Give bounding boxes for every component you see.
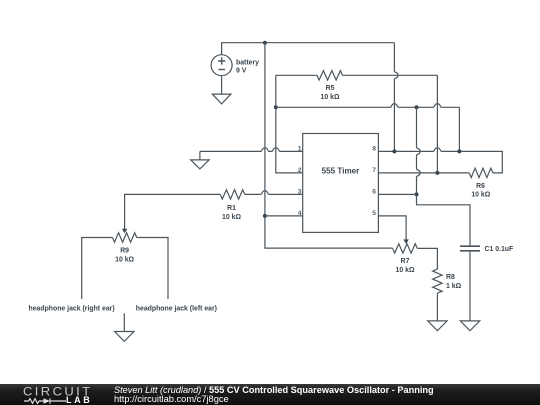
node C junction dot on y107 row [415, 105, 419, 109]
label R5 10 kOhm [321, 85, 340, 101]
svg-text:C1 0.1uF: C1 0.1uF [485, 246, 514, 253]
wire battery bottom [221, 76, 223, 94]
node A junction dot [263, 41, 267, 45]
svg-text:R5: R5 [326, 85, 335, 92]
svg-text:9 V: 9 V [236, 67, 247, 74]
svg-text:R8: R8 [446, 274, 455, 281]
svg-text:battery: battery [236, 59, 259, 66]
wire V5: R5 right end down to pin 7 [436, 75, 438, 173]
node pin8-V3 junction dot [392, 149, 396, 153]
node pin8-V6 junction dot [457, 149, 461, 153]
svg-text:7: 7 [372, 167, 376, 174]
footer bar [0, 384, 540, 405]
node pin7-V5 junction dot [435, 171, 439, 175]
ground (C1) [460, 321, 479, 331]
wire V4: node C down to C1, hops over pin8 and pin7 rows [417, 107, 471, 246]
resistor R5 [276, 71, 438, 80]
svg-text:5: 5 [372, 210, 376, 217]
svg-text:2: 2 [298, 167, 302, 174]
wire pin4 row [265, 215, 303, 217]
wire R8 bottom to ground [436, 293, 438, 321]
label C1 0.1uF [485, 246, 514, 253]
svg-text:headphone jack (left ear): headphone jack (left ear) [136, 306, 217, 313]
wire battery top to node A [222, 43, 395, 55]
resistor R1 [220, 190, 244, 199]
svg-text:R9: R9 [120, 248, 129, 255]
wire V1: node A down to R7 row, hops over pin rows [265, 43, 393, 248]
CircuitLab logo [23, 385, 93, 399]
capacitor C1 [460, 246, 480, 251]
wire pin1 row with hops over V1 and V2 [200, 148, 303, 152]
wire V6: y107 row right end down to pin 8 row [458, 107, 460, 151]
resistor R6 [469, 168, 493, 177]
wire V3: node A right end down to pin 8 row with hop over R5 wire [394, 43, 398, 152]
node B junction dot [274, 105, 278, 109]
svg-text:10 kΩ: 10 kΩ [222, 214, 241, 221]
svg-text:R6: R6 [476, 183, 485, 190]
svg-text:10 kΩ: 10 kΩ [115, 257, 134, 264]
wire R9 left to right-ear jack [82, 238, 113, 300]
svg-text:6: 6 [372, 188, 376, 195]
wire V2: R5 left end down to 555 pin 2 [276, 75, 303, 173]
wire pin8 row to R6 right side, hop over V5 [378, 148, 502, 173]
label R6 10 kOhm [471, 183, 490, 199]
svg-text:R7: R7 [401, 258, 410, 265]
wire net row y107 from node B to V6, hops over V3 and V5 [276, 104, 460, 108]
svg-text:1 kΩ: 1 kΩ [446, 283, 462, 290]
wire pin5 to R7 wiper [378, 216, 406, 240]
wire pin3 row to R9 wiper [125, 191, 303, 226]
label R9 10 kOhm [115, 248, 134, 264]
label battery 9 V [236, 59, 259, 74]
label 555 Timer [322, 167, 360, 176]
footer text line 1 [114, 385, 434, 395]
node pin4 junction dot [263, 214, 267, 218]
footer text line 2 [114, 394, 229, 404]
IC U1 555 Timer box [303, 134, 379, 233]
ground (R8) [428, 321, 447, 331]
label R7 10 kOhm [396, 258, 415, 274]
svg-text:555 Timer: 555 Timer [322, 167, 360, 176]
resistor R8 [433, 269, 442, 293]
potentiometer R9 [113, 225, 137, 242]
svg-text:10 kΩ: 10 kΩ [321, 94, 340, 101]
label R1 10 kOhm [222, 205, 241, 221]
pin number 1 [298, 145, 302, 217]
wire pin6 row [378, 193, 416, 195]
svg-text:10 kΩ: 10 kΩ [396, 267, 415, 274]
wire pin7 row [378, 172, 469, 174]
potentiometer R7 [393, 239, 418, 253]
wire R7 right to R8 [417, 248, 437, 269]
ground (battery) [212, 94, 231, 104]
ground (jack common) [115, 313, 134, 341]
svg-text:8: 8 [372, 145, 376, 152]
node headphone jack (left ear) [136, 306, 217, 313]
ground (pin 1) [191, 151, 209, 169]
wire C1 bottom to ground [469, 251, 471, 321]
svg-text:10 kΩ: 10 kΩ [471, 191, 490, 198]
wire R9 right to left-ear jack [137, 238, 168, 300]
node pin6 junction dot [415, 192, 419, 196]
battery V source [211, 55, 232, 76]
node headphone jack (right ear) [29, 306, 115, 313]
svg-text:1: 1 [298, 145, 302, 152]
svg-text:headphone jack (right ear): headphone jack (right ear) [29, 306, 115, 313]
label R8 1 kOhm [446, 274, 462, 290]
svg-text:R1: R1 [227, 205, 236, 212]
